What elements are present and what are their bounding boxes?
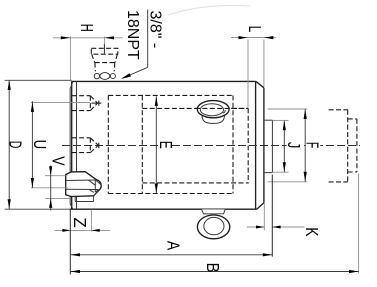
svg-text:V: V [48, 156, 68, 166]
hidden inner bore rect [142, 95, 248, 193]
left outer face sliver [69, 89, 71, 204]
flange left face [255, 81, 257, 209]
dimension D [5, 80, 72, 209]
dimension H [53, 24, 123, 82]
flange right [256, 81, 264, 209]
dimension F [268, 109, 323, 182]
dimension U [30, 101, 90, 188]
bottom edge [70, 208, 257, 210]
hidden bore big rect [108, 95, 233, 193]
top-left chamfer [70, 82, 73, 89]
svg-text:3/8" -: 3/8" - [146, 11, 163, 49]
dimension A [70, 175, 272, 275]
svg-text:H: H [77, 24, 97, 32]
main centerline [62, 145, 360, 147]
flange top chamfer [256, 81, 264, 87]
hidden shaft right [329, 110, 357, 182]
svg-text:K: K [302, 227, 322, 237]
dimension J [272, 120, 304, 172]
band under plug [75, 201, 93, 203]
flange bottom chamfer [257, 203, 264, 209]
npt fitting top [91, 37, 118, 80]
left tapped hole lower [72, 138, 99, 153]
hex plug left [66, 172, 102, 202]
svg-text:U: U [30, 140, 50, 150]
svg-text:Z: Z [70, 217, 90, 228]
leader 3/8-18NPT [121, 10, 163, 79]
left tapped hole top [72, 96, 102, 111]
dimension L [231, 26, 276, 108]
svg-text:F: F [302, 142, 322, 148]
top edge [72, 80, 256, 82]
bottom port boss [197, 209, 229, 238]
dimension Z [54, 210, 110, 232]
dimension E [155, 96, 176, 193]
top-right port boss [195, 101, 248, 124]
svg-text:B: B [203, 263, 223, 273]
body outline [70, 81, 257, 209]
flange right face [263, 88, 265, 203]
hub pilot [264, 120, 273, 172]
svg-text:D: D [5, 141, 25, 149]
svg-text:A: A [164, 241, 184, 251]
svg-text:L: L [245, 26, 265, 33]
left face [71, 81, 73, 209]
dimension V [45, 156, 70, 210]
bottom-left chamfer [70, 204, 73, 209]
dimension K [247, 203, 322, 237]
svg-text:18NPT: 18NPT [124, 10, 141, 60]
svg-text:J: J [284, 142, 304, 148]
svg-text:E: E [156, 141, 176, 149]
dimension B [70, 174, 358, 274]
inner plate line [76, 81, 78, 209]
scan noise arc top right [168, 5, 250, 15]
